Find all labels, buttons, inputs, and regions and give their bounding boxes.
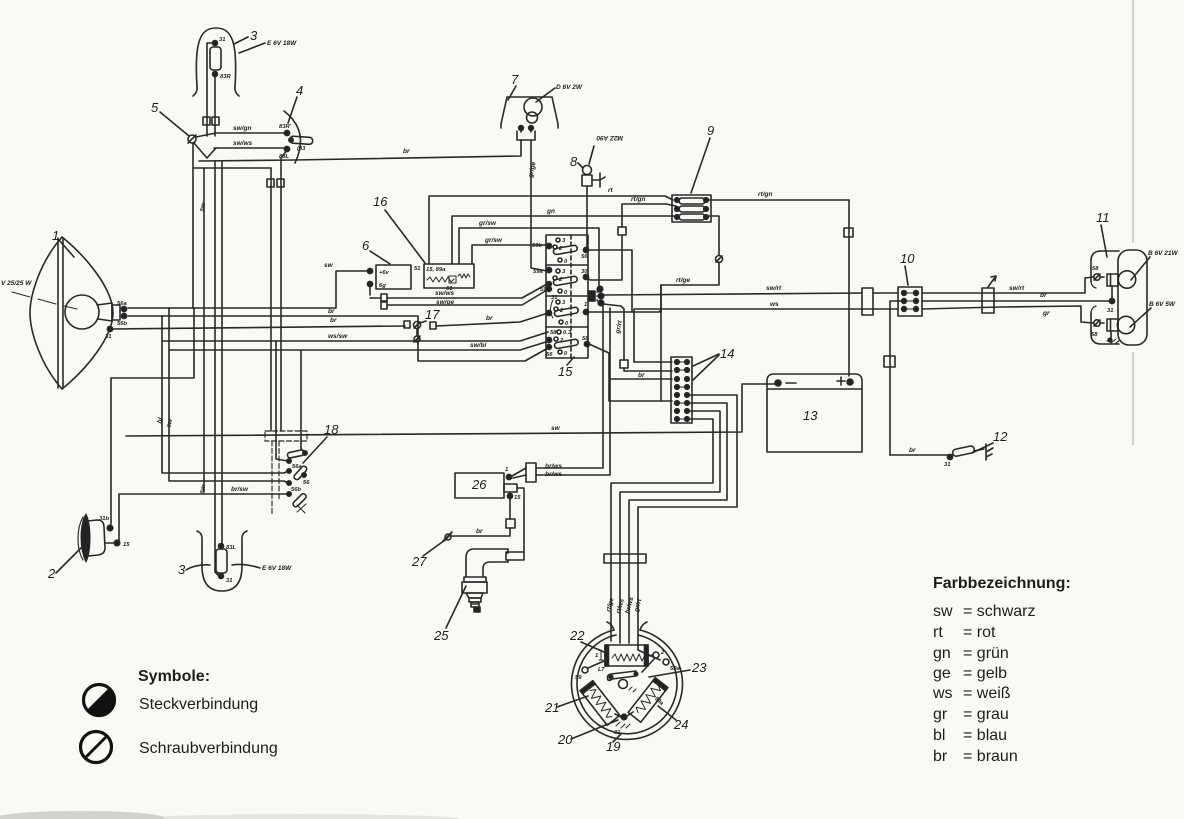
wire rt/ge down to strip (661, 277, 690, 401)
wire 83R from top lamp down (214, 77, 216, 136)
label 14 (693, 346, 734, 380)
wire 58 from switch to strip (589, 344, 672, 401)
svg-text:8: 8 (570, 154, 578, 169)
label E 6V 18W bottom (232, 564, 292, 572)
svg-text:1: 1 (584, 302, 587, 308)
headlamp terminal 56b (117, 313, 127, 327)
svg-text:31: 31 (944, 462, 950, 468)
svg-text:59b: 59b (540, 287, 550, 293)
screw connector 17 (414, 322, 421, 343)
magneto feed coil 21 (580, 681, 620, 726)
lamp 3 bottom bulb E6V18W (216, 544, 236, 585)
svg-text:br: br (909, 447, 916, 454)
svg-text:ws/sw: ws/sw (328, 333, 348, 340)
scan smudge bottom (0, 811, 165, 819)
svg-text:sw/gn: sw/gn (233, 125, 251, 132)
svg-text:31: 31 (551, 295, 557, 301)
svg-text:E 6V 18W: E 6V 18W (262, 565, 292, 572)
svg-text:ge: ge (933, 665, 951, 682)
svg-text:30: 30 (581, 269, 588, 275)
screw connector 27 (443, 532, 452, 541)
svg-text:br/ws: br/ws (545, 471, 562, 478)
svg-text:59a: 59a (533, 269, 543, 275)
wire from switch 1 terminal (589, 310, 661, 312)
wire rt/gn from block 9 to switch 30 (587, 196, 676, 280)
magneto harness wire rt/ws (620, 411, 720, 643)
label 25 (433, 586, 466, 643)
label 7 (508, 72, 519, 100)
svg-text:B 6V 21W: B 6V 21W (1148, 250, 1178, 257)
label 22 (569, 628, 604, 652)
svg-text:rt/gn: rt/gn (758, 191, 772, 198)
wire sw/bl down to dip switch 18 (165, 308, 288, 483)
label 4 (288, 83, 303, 123)
tail lamp bulb B6V21W (1092, 266, 1136, 299)
terminal strip 14 (671, 357, 692, 423)
svg-text:16: 16 (373, 194, 388, 209)
plug connector before block 10 (862, 288, 873, 315)
svg-text:= schwarz: = schwarz (963, 603, 1035, 620)
svg-text:gn: gn (933, 645, 951, 662)
lamp 3 top bulb E6V18W (210, 37, 231, 80)
svg-text:56: 56 (546, 352, 553, 358)
flywheel magneto 19 outer ring (572, 622, 683, 739)
wire gr/rt from junction to strip row2 (603, 304, 672, 371)
wire sw/ws from box6 to switch (370, 284, 547, 301)
svg-text:br: br (933, 748, 948, 765)
svg-text:E 6V 18W: E 6V 18W (267, 40, 297, 47)
svg-text:Schraubverbindung: Schraubverbindung (139, 740, 278, 757)
svg-text:= grau: = grau (963, 706, 1009, 723)
svg-text:sw: sw (551, 425, 561, 432)
magneto ground (614, 712, 633, 736)
label 1 (52, 228, 74, 257)
wire sw/bl branch to dip switch (301, 350, 304, 452)
svg-text:2: 2 (47, 566, 56, 581)
label 2 (47, 546, 83, 581)
switch section d contacts (546, 330, 590, 358)
svg-text:rt: rt (608, 187, 614, 194)
wire sw/gn to switch 4 (196, 125, 285, 137)
svg-text:59b: 59b (532, 243, 542, 249)
speedometer lamp 7 housing (501, 97, 558, 128)
svg-text:sw/bl: sw/bl (470, 342, 486, 349)
wire to bottom lamp 83L terminal (221, 161, 223, 544)
wire sw/ws to switch 4 (214, 140, 285, 148)
connector block 9 (672, 195, 711, 222)
svg-text:(83: (83 (297, 146, 306, 152)
wire horn 15 to lamp circuit (119, 486, 287, 541)
svg-text:15: 15 (514, 495, 521, 501)
svg-text:51: 51 (414, 266, 420, 272)
lamp 7 mounting bracket (517, 130, 535, 140)
svg-text:+6v: +6v (379, 270, 390, 276)
label B 6V 5W (1130, 301, 1176, 327)
switch section b contacts (533, 267, 589, 296)
svg-text:31b: 31b (99, 516, 109, 522)
svg-text:25: 25 (433, 628, 449, 643)
wire 83L vertical to bottom lamp (215, 161, 219, 576)
svg-text:D 6V 2W: D 6V 2W (556, 84, 583, 91)
svg-text:rt/gn: rt/gn (631, 196, 645, 203)
label 6 (362, 238, 390, 264)
svg-text:sw/rt: sw/rt (766, 285, 782, 292)
magneto terminal 59a (638, 645, 680, 672)
spark plug lead (517, 488, 524, 552)
svg-text:sw/ge: sw/ge (436, 299, 454, 306)
svg-text:59: 59 (575, 675, 582, 681)
svg-text:V 25/25 W: V 25/25 W (1, 280, 32, 287)
svg-text:B 6V 5W: B 6V 5W (1149, 301, 1176, 308)
wire horn 31b riser (111, 308, 194, 378)
wire sw/rt continue (873, 292, 898, 294)
svg-text:3: 3 (178, 562, 186, 577)
svg-text:56a: 56a (117, 301, 127, 307)
tail lamp terminal 31 (1107, 298, 1115, 314)
wire 15 to ground screw 27 (451, 499, 515, 536)
lamp 3 bottom dome (197, 531, 247, 591)
handlebar switch 4 (279, 111, 313, 163)
wire br from headlamp 31 to screw 17 (113, 317, 410, 329)
label 24 (658, 706, 688, 732)
ignition light switch 15 (546, 235, 588, 358)
node link vertical (660, 285, 662, 312)
svg-text:= rot: = rot (963, 624, 996, 641)
svg-text:31: 31 (105, 334, 111, 340)
wire sw/rt to tail brake bulb (922, 277, 1093, 293)
svg-text:15: 15 (558, 364, 573, 379)
label 16 (373, 194, 425, 263)
wire gr/ge from lamp 7 down (527, 140, 547, 271)
wire br/ws coil feed a (536, 306, 603, 468)
svg-text:gr/sw: gr/sw (484, 237, 503, 244)
svg-text:58: 58 (550, 330, 557, 336)
svg-text:56b: 56b (117, 321, 127, 327)
legend Symbole (81, 668, 278, 763)
contact breaker 23 (607, 671, 637, 692)
svg-text:14: 14 (720, 346, 734, 361)
svg-text:1: 1 (52, 228, 59, 243)
svg-text:gr: gr (933, 706, 948, 723)
svg-text:M2Z A90: M2Z A90 (596, 134, 623, 141)
svg-text:83R': 83R' (279, 124, 292, 130)
headlamp 1 lens (30, 237, 113, 389)
label 3 top (234, 28, 258, 44)
svg-text:23: 23 (691, 660, 707, 675)
svg-text:9: 9 (707, 123, 714, 138)
label 8 (570, 154, 583, 169)
magneto harness wire gr/rt (638, 395, 737, 645)
label 18 (303, 422, 339, 463)
svg-text:sw: sw (324, 262, 334, 269)
svg-text:gr/sw: gr/sw (478, 220, 497, 227)
svg-text:7: 7 (511, 72, 519, 87)
svg-text:31: 31 (226, 578, 232, 584)
legend Farbbezeichnung (932, 575, 1071, 765)
label 3 bottom (178, 562, 210, 577)
wire rt from box16 to connector 9 (429, 187, 673, 264)
svg-text:83L: 83L (226, 545, 236, 551)
svg-text:ws: ws (770, 301, 779, 308)
label 15 (558, 357, 574, 379)
horn 2 (78, 514, 130, 562)
svg-text:15, 89a: 15, 89a (426, 267, 446, 273)
svg-text:br: br (403, 148, 410, 155)
svg-text:Symbole:: Symbole: (138, 668, 210, 685)
junction cluster right of switch (589, 286, 604, 306)
wire ws/sw down to dip switch 18 (156, 316, 288, 473)
magneto ignition coil 24 (628, 678, 668, 723)
svg-text:br: br (328, 308, 335, 315)
svg-text:0.3: 0.3 (563, 330, 572, 336)
label 27 (411, 540, 445, 569)
svg-text:31: 31 (219, 37, 225, 43)
svg-text:Steckverbindung: Steckverbindung (139, 696, 258, 713)
svg-text:= grün: = grün (963, 645, 1009, 662)
magneto harness wire br/ws (629, 403, 727, 643)
label B 6V 21W (1131, 250, 1178, 280)
headlamp value label V25/25W (1, 280, 77, 309)
svg-text:58: 58 (582, 336, 589, 342)
wire 31 from top lamp down (207, 43, 212, 136)
junction wires below 5 (193, 143, 216, 308)
wire 56 to junction node (589, 250, 632, 312)
svg-text:= braun: = braun (963, 748, 1018, 765)
plug connection symbol (84, 685, 116, 717)
label E 6V 18W top (239, 40, 297, 53)
svg-text:br: br (330, 317, 337, 324)
wire br/ws coil feed b (536, 308, 610, 475)
svg-text:56: 56 (303, 480, 310, 486)
svg-text:56: 56 (581, 254, 588, 260)
wire br to tail lamp 31 (922, 292, 1109, 301)
wire rt from block 9 to battery plus (708, 191, 849, 200)
connector block 10 (898, 287, 922, 316)
label 20 (557, 720, 618, 747)
wire sw/ge to switch (381, 290, 547, 309)
box 6 charge indicator (367, 265, 411, 289)
wire sw from headlamp 56a to box 6 (128, 262, 367, 308)
coil feed connector (512, 463, 562, 482)
svg-text:Farbbezeichnung:: Farbbezeichnung: (933, 575, 1071, 592)
wire ws/sw to switch (162, 332, 548, 341)
svg-text:58: 58 (1092, 266, 1099, 272)
lamp 3 top dome (193, 28, 239, 96)
svg-text:br: br (638, 372, 645, 379)
spark plug cap 25 (462, 549, 524, 612)
svg-text:1: 1 (505, 467, 508, 473)
label 23 (649, 660, 707, 677)
svg-text:1: 1 (595, 653, 598, 659)
wire br from headlamp 56b (128, 308, 548, 361)
headlamp terminal 31 (105, 326, 113, 340)
brake switch 12 (944, 444, 993, 468)
dip switch 18 contacts (287, 449, 310, 513)
wire 83L pair from switch 4 down (281, 150, 287, 431)
svg-text:6g: 6g (379, 283, 386, 289)
svg-text:56a: 56a (292, 464, 302, 470)
svg-text:sw: sw (933, 603, 953, 620)
battery feed vertical (844, 200, 853, 376)
svg-text:= blau: = blau (963, 727, 1007, 744)
svg-text:13: 13 (803, 408, 818, 423)
magneto lighting coil 22 (595, 645, 648, 673)
svg-text:br/ws: br/ws (545, 463, 562, 470)
svg-text:LT: LT (598, 667, 605, 673)
label 19 (606, 734, 621, 754)
wire br to brake switch 12 (890, 447, 948, 455)
svg-text:6: 6 (362, 238, 370, 253)
fuse 8 (582, 166, 605, 188)
svg-text:sw/ws: sw/ws (435, 290, 455, 297)
magneto terminal 59 (575, 661, 604, 681)
svg-text:58: 58 (1091, 332, 1098, 338)
svg-text:31: 31 (1107, 308, 1113, 314)
svg-text:gr: gr (1042, 310, 1050, 317)
wire (83) from switch 4 down (270, 168, 272, 431)
svg-text:15: 15 (123, 542, 130, 548)
regulator box 16 (414, 264, 474, 292)
battery 13 (767, 374, 862, 452)
wire br from 17 to switch 31 (430, 313, 548, 329)
plug connectors on top lamp wires (203, 117, 210, 125)
svg-text:27: 27 (411, 554, 427, 569)
wire bus horizontal lower (193, 167, 271, 169)
label 9 (691, 123, 714, 193)
svg-text:10: 10 (900, 251, 915, 266)
wire gr/sw from box16 to switch 59b (472, 237, 548, 264)
wire ws/sw branch to dip switch (276, 341, 288, 461)
harness connector band (604, 554, 646, 563)
wire br to strip row3 (610, 372, 672, 379)
svg-text:br/sw: br/sw (231, 486, 249, 493)
svg-text:5: 5 (151, 100, 159, 115)
magneto harness wire rt/ge (611, 419, 713, 641)
svg-text:= weiß: = weiß (963, 685, 1011, 702)
wire sw/rt junction to block 10 (603, 285, 862, 295)
svg-text:br: br (476, 528, 483, 535)
wire horn 31b vertical (110, 378, 112, 524)
wire br from lamp 7 to left (199, 140, 521, 161)
tail lamp bulb B6V5W (1091, 316, 1135, 343)
svg-text:br: br (1040, 292, 1047, 299)
switch section c contacts (546, 295, 588, 327)
screw connection symbol (81, 732, 112, 763)
svg-text:sw/rt: sw/rt (1009, 285, 1025, 292)
label 17 (420, 307, 440, 323)
ignition coil 26 (455, 467, 521, 501)
svg-text:26: 26 (471, 477, 487, 492)
svg-text:17: 17 (425, 307, 440, 322)
svg-text:bl: bl (933, 727, 945, 744)
headlamp terminal 56a (117, 301, 127, 312)
label D 6V 2W (536, 84, 583, 102)
wire gr/sw from box16 to junction (459, 220, 599, 286)
magneto terminal 2 (642, 650, 665, 672)
svg-text:11: 11 (1096, 210, 1110, 225)
wire sw/bl to switch (169, 341, 549, 350)
svg-text:rt: rt (933, 624, 943, 641)
svg-text:12: 12 (993, 429, 1008, 444)
wire fuse 8 to switch 56 (586, 186, 588, 247)
svg-text:sw/ws: sw/ws (233, 140, 253, 147)
tail lamp 11 housing (1091, 250, 1147, 345)
svg-text:4: 4 (296, 83, 303, 98)
plug connector with arrow (982, 276, 996, 313)
svg-text:rt/ge: rt/ge (676, 277, 690, 284)
label 11 (1096, 210, 1110, 257)
wire gr to tail light bulb (922, 306, 1093, 323)
label 5 (151, 100, 189, 136)
wire ws to strip row1 (634, 361, 672, 363)
wire ws to block 10 (634, 301, 898, 362)
dip switch 18 dashed housing (265, 431, 307, 516)
wire sw vertical left (198, 168, 207, 494)
svg-text:br: br (486, 315, 493, 322)
screw connector 5 (188, 135, 196, 143)
wire block10 row2 to ground fuse (890, 300, 904, 302)
label M2Z A90 rotated (589, 134, 623, 164)
svg-text:3: 3 (250, 28, 258, 43)
wire sw battery minus long run (126, 384, 774, 436)
label 10 (900, 251, 915, 285)
svg-text:= gelb: = gelb (963, 665, 1007, 682)
lamp 7 terminals (519, 126, 534, 131)
svg-text:22: 22 (569, 628, 585, 643)
svg-text:56b: 56b (291, 487, 301, 493)
svg-text:83R: 83R (220, 74, 231, 80)
plug connectors on 83L pair (267, 179, 274, 187)
label 21 (544, 696, 588, 715)
wire rt/ge upper run (661, 262, 719, 285)
harness labels (605, 596, 643, 615)
label 12 (972, 429, 1008, 453)
screw connector on rt/ge (708, 216, 723, 263)
scan artifact line (1132, 0, 1134, 445)
ground fuse connector right (884, 301, 895, 455)
wire gn from box16 to switch top (452, 208, 674, 264)
headlamp bulb (65, 295, 120, 329)
switch section a contacts (532, 238, 589, 265)
svg-text:ws: ws (932, 685, 953, 702)
svg-text:gn: gn (546, 208, 555, 215)
